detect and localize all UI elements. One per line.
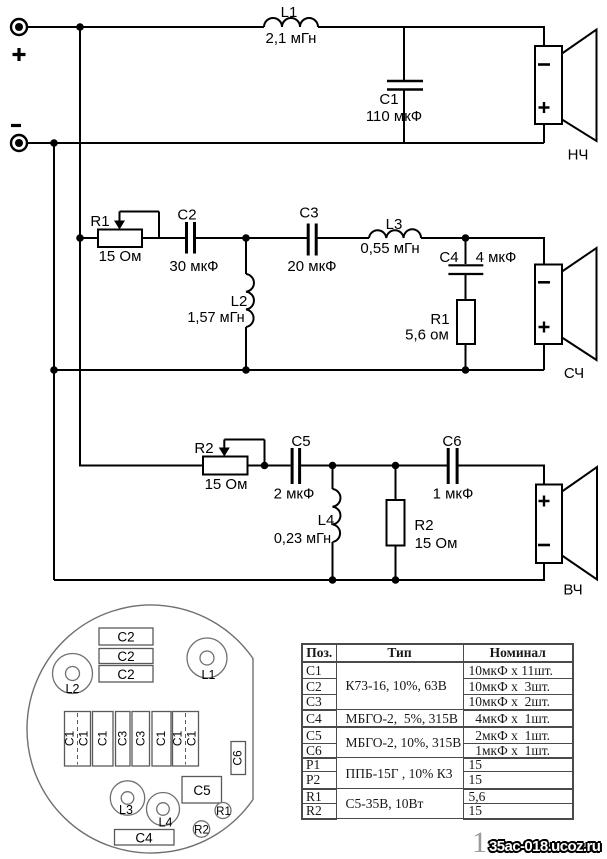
PCB capacitor C5 — [182, 777, 222, 804]
node junction R2 wiper — [261, 462, 269, 470]
wire C1 branch bottom — [403, 90, 405, 143]
node junction R2 resistor top — [392, 462, 400, 470]
terminal plus input — [11, 19, 27, 61]
svg-text:C4: C4 — [439, 249, 458, 266]
inductor L3 — [360, 216, 421, 257]
capacitor C3 20uF — [287, 205, 336, 276]
capacitor C5 2uF — [274, 433, 315, 503]
svg-text:C2: C2 — [117, 649, 134, 664]
svg-text:R2: R2 — [194, 825, 209, 837]
PCB capacitor C1 single 3 — [152, 712, 171, 767]
node junction C4 top — [462, 234, 470, 242]
svg-text:1,57 мГн: 1,57 мГн — [187, 310, 244, 326]
PCB resistor R2 pad — [193, 821, 209, 837]
svg-text:C5: C5 — [291, 433, 310, 450]
svg-text:2 мкФ: 2 мкФ — [274, 486, 315, 503]
wire mid bottom rail — [54, 369, 544, 371]
wire tweeter bottom rail — [54, 563, 544, 580]
svg-text:C4: C4 — [135, 831, 153, 846]
svg-text:C6: C6 — [231, 750, 245, 766]
PCB inductor L2 pad — [53, 654, 93, 697]
node junction minus rail — [50, 139, 58, 147]
svg-text:2,1 мГн: 2,1 мГн — [266, 30, 317, 47]
svg-text:C2: C2 — [117, 667, 134, 682]
watermark digit — [472, 826, 487, 859]
speaker НЧ woofer — [535, 30, 597, 164]
svg-text:L4: L4 — [159, 816, 173, 830]
svg-text:C2: C2 — [117, 630, 134, 645]
PCB board outline — [27, 605, 253, 853]
node junction L2 bottom — [242, 366, 250, 374]
svg-text:C3: C3 — [134, 731, 148, 747]
node junction mid bottom left — [50, 366, 58, 374]
svg-text:L3: L3 — [119, 803, 133, 817]
inductor L1 — [264, 4, 318, 47]
PCB capacitor bank C1 C1 second — [171, 712, 199, 767]
speaker ВЧ tweeter — [536, 467, 597, 599]
svg-text:20 мкФ: 20 мкФ — [287, 258, 336, 275]
speaker СЧ midrange — [535, 248, 597, 382]
capacitor C6 1uF — [433, 433, 474, 503]
wire top rail plus — [27, 26, 264, 28]
node junction R2 resistor bottom — [392, 576, 400, 584]
PCB capacitor C2 slot 1 — [99, 628, 153, 645]
node junction L4 top — [329, 462, 337, 470]
wire top rail to woofer — [318, 27, 544, 46]
capacitor C4 4uF — [439, 238, 516, 274]
node junction L4 bottom — [329, 576, 337, 584]
svg-text:110 мкФ: 110 мкФ — [366, 108, 422, 125]
svg-text:L1: L1 — [202, 668, 216, 682]
PCB capacitor bank C1 C1 — [63, 712, 91, 767]
resistor R2 15 Ом — [387, 466, 458, 581]
wire C5 to C6 — [301, 465, 447, 467]
PCB inductor L1 pad — [187, 638, 227, 682]
svg-text:C1: C1 — [77, 731, 91, 747]
wire plus rail down to tweeter section — [80, 238, 203, 466]
PCB capacitor C2 slot 3 — [99, 666, 153, 683]
svg-text:L1: L1 — [281, 4, 298, 21]
terminal minus input — [11, 126, 27, 152]
PCB capacitor C6 — [231, 742, 246, 775]
svg-text:НЧ: НЧ — [568, 147, 589, 164]
svg-text:C1: C1 — [154, 731, 168, 747]
potentiometer R1 15 Ом — [90, 212, 159, 266]
svg-text:15 Ом: 15 Ом — [205, 476, 248, 493]
svg-text:4 мкФ: 4 мкФ — [476, 249, 517, 266]
svg-text:C1: C1 — [171, 731, 185, 747]
svg-text:L2: L2 — [231, 293, 248, 310]
wire C6 to tweeter — [459, 466, 545, 485]
wire mid rail to R1 — [80, 237, 98, 239]
svg-text:5,6 ом: 5,6 ом — [405, 327, 449, 344]
svg-text:L3: L3 — [386, 216, 403, 233]
svg-text:1 мкФ: 1 мкФ — [433, 486, 474, 503]
wire C3 to L3 — [318, 237, 370, 239]
svg-text:L4: L4 — [318, 512, 335, 529]
svg-text:C5: C5 — [193, 783, 210, 798]
PCB capacitor C2 slot 2 — [99, 649, 153, 665]
svg-text:R1: R1 — [90, 213, 109, 230]
svg-text:C3: C3 — [299, 205, 318, 222]
svg-text:15 Ом: 15 Ом — [415, 535, 458, 552]
wire R2 to C5 — [248, 465, 291, 467]
PCB capacitor C3 single — [116, 712, 131, 767]
wire vertical plus rail — [79, 27, 81, 238]
PCB capacitor C1 single — [93, 712, 114, 767]
svg-text:C3: C3 — [116, 731, 130, 747]
svg-text:0,23 мГн: 0,23 мГн — [274, 531, 331, 547]
svg-text:0,55 мГн: 0,55 мГн — [360, 240, 419, 257]
capacitor C2 30uF — [169, 207, 218, 276]
parts table — [301, 643, 574, 820]
wire R1 to C2 — [142, 237, 185, 239]
PCB capacitor C3 single 2 — [132, 712, 150, 767]
svg-text:R1: R1 — [430, 311, 449, 328]
PCB capacitor C4 — [115, 830, 175, 846]
wire minus rail horizontal — [27, 142, 544, 144]
node junction mid rail left — [76, 234, 84, 242]
potentiometer R2 15 Ом — [194, 440, 264, 494]
svg-text:C1: C1 — [96, 731, 110, 747]
svg-text:R2: R2 — [414, 517, 433, 534]
resistor R1 5.6 Ом — [405, 274, 475, 370]
svg-text:C1: C1 — [63, 731, 77, 747]
svg-text:R2: R2 — [194, 440, 213, 457]
svg-text:C1: C1 — [379, 91, 398, 108]
svg-text:ВЧ: ВЧ — [563, 582, 582, 599]
svg-text:СЧ: СЧ — [564, 365, 584, 382]
svg-text:C6: C6 — [442, 433, 461, 450]
svg-text:15 Ом: 15 Ом — [99, 248, 142, 265]
capacitor C1 110uF — [366, 81, 423, 125]
svg-text:30 мкФ: 30 мкФ — [169, 258, 218, 275]
node junction top rail — [76, 23, 84, 31]
watermark 35ac-018.ucoz.ru — [489, 838, 600, 855]
wire C2 to C3 — [196, 237, 307, 239]
wire L3 to midrange — [421, 238, 544, 265]
svg-text:C2: C2 — [177, 207, 196, 224]
wire vertical minus rail — [53, 143, 55, 580]
PCB resistor R1 pad — [215, 803, 231, 819]
wire C1 branch top — [403, 27, 405, 80]
svg-text:C1: C1 — [185, 731, 199, 747]
svg-text:L2: L2 — [66, 682, 80, 696]
inductor L2 — [187, 238, 254, 370]
PCB inductor L4 pad — [147, 793, 180, 830]
node junction R1 bottom — [462, 366, 470, 374]
inductor L4 — [274, 466, 341, 581]
PCB inductor L3 pad — [110, 781, 144, 817]
svg-text:R1: R1 — [216, 806, 231, 818]
node junction L2 top — [242, 234, 250, 242]
